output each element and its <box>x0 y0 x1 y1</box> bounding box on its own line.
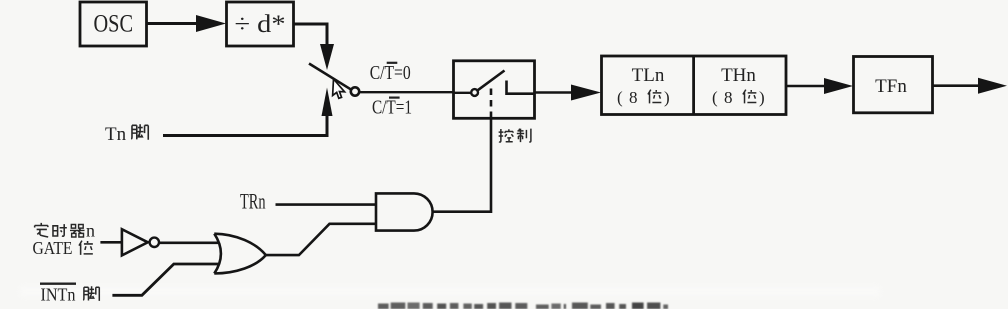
label INTn pin <box>40 284 99 305</box>
wire inverter to OR <box>159 242 220 245</box>
wire divider to switch <box>294 24 328 44</box>
svg-text:Tn: Tn <box>105 124 127 145</box>
wire control box to TLn <box>535 91 573 94</box>
dashed control link <box>490 89 493 119</box>
wire control line down to AND output <box>432 118 491 211</box>
label GATE bit <box>33 238 93 258</box>
wire TFn out <box>933 84 981 87</box>
svg-text:): ) <box>759 88 765 107</box>
block TLn THn <box>602 56 787 115</box>
wire Tn to switch <box>163 115 327 136</box>
control box <box>454 61 535 119</box>
or gate U4 <box>214 234 265 274</box>
label C/T=1 <box>372 97 412 119</box>
wire THn to TFn <box>787 85 826 88</box>
svg-text:C/T=0: C/T=0 <box>370 62 411 84</box>
arrowhead up to switch <box>322 88 333 117</box>
arrowhead into divider <box>196 15 226 32</box>
inner switch blade <box>478 71 505 91</box>
svg-text:(: ( <box>617 88 623 107</box>
wire contact to box edge <box>507 92 536 95</box>
label Tn pin <box>105 124 148 145</box>
faint white band <box>20 286 880 297</box>
svg-text:GATE: GATE <box>33 238 73 258</box>
wire into inner switch <box>453 92 471 94</box>
wire switch to control box <box>359 91 455 93</box>
arrowhead out <box>978 78 1007 94</box>
svg-text:TRn: TRn <box>240 189 266 214</box>
inverter U3 <box>122 229 148 255</box>
svg-text:C/T=1: C/T=1 <box>372 97 412 119</box>
inverter bubble <box>150 238 159 247</box>
label TLn 8 bits <box>617 88 670 107</box>
svg-text:TLn: TLn <box>632 65 665 86</box>
block TFn <box>854 57 933 113</box>
svg-text:TFn: TFn <box>875 76 907 97</box>
svg-text:INTn: INTn <box>41 285 76 305</box>
svg-text:8: 8 <box>724 88 733 107</box>
and gate U2 <box>376 193 433 230</box>
svg-text:÷ d*: ÷ d* <box>235 11 286 38</box>
wire OSC to divider <box>146 22 200 25</box>
svg-text:8: 8 <box>629 88 638 107</box>
svg-text:OSC: OSC <box>94 11 134 38</box>
label timer n <box>35 221 95 241</box>
svg-text:THn: THn <box>721 65 756 86</box>
arrowhead into TLn <box>571 85 601 101</box>
label C/T=0 <box>370 62 411 84</box>
inner switch pivot <box>471 89 478 96</box>
block OSC <box>80 2 147 46</box>
arrowhead into TFn <box>824 78 853 94</box>
caption fragment (cut off) <box>378 303 668 309</box>
mouse cursor icon <box>333 79 346 99</box>
block divider d <box>227 2 294 46</box>
inverter input wire <box>100 241 122 244</box>
svg-text:(: ( <box>712 88 718 107</box>
wire INTn to OR <box>112 264 220 295</box>
svg-text:): ) <box>664 88 670 107</box>
switch pivot node <box>351 87 359 95</box>
wire TRn to AND <box>276 203 377 206</box>
switch blade <box>309 64 351 90</box>
wire OR output to AND input <box>266 224 376 255</box>
svg-text:n: n <box>86 221 95 241</box>
label THn 8 bits <box>712 88 765 107</box>
arrowhead down to switch <box>320 44 334 70</box>
label control <box>499 129 531 142</box>
inner switch contact <box>505 81 508 96</box>
